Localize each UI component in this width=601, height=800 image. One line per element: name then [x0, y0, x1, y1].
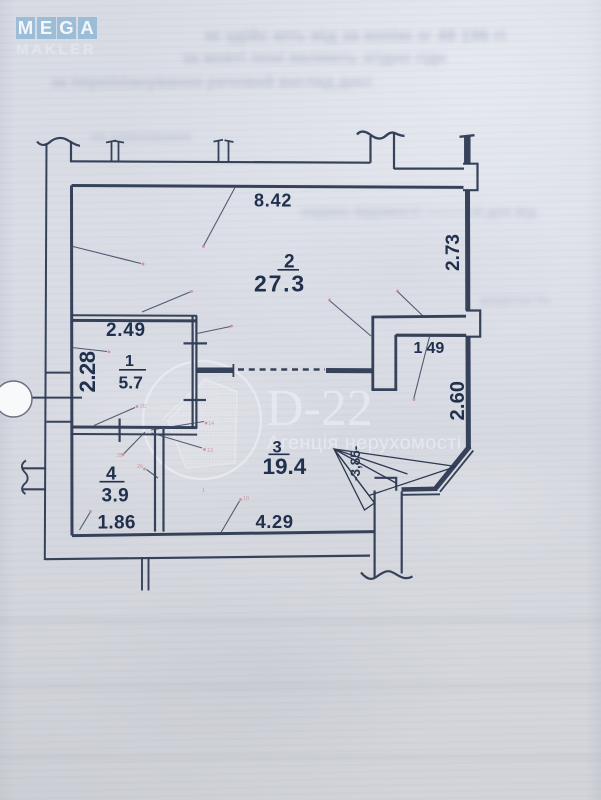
- wall: top outer (right span): [394, 168, 464, 170]
- leader to red dot 5 (to top wall right): [398, 292, 424, 317]
- stub end cap: [232, 364, 234, 377]
- underline of room 2: [278, 269, 300, 271]
- leader to red dot 8 (junction to hatch): [151, 422, 204, 431]
- pen arrow annotation fan: [334, 449, 456, 510]
- wall: left inner: [70, 186, 74, 536]
- leader through 1/49 label: [414, 337, 430, 399]
- leader to red dot 9 (junction down-right): [152, 433, 203, 448]
- wall jut with break squiggle (top middle-right): [369, 136, 371, 163]
- wall: top outer (left span): [70, 161, 371, 162]
- wall: partition room4/room3 (double): [154, 429, 156, 532]
- svg-text:2.28: 2.28: [75, 351, 100, 392]
- leader to red dot 14 (right of room1 wall): [197, 327, 231, 334]
- svg-text:8.42: 8.42: [254, 191, 292, 211]
- wall: chamfer corner (thick): [436, 447, 470, 489]
- svg-text:2.60: 2.60: [447, 381, 469, 421]
- door tick upper (room1 right wall): [184, 342, 208, 344]
- wall: bottom inner: [72, 532, 375, 536]
- leader to red dot 4 (to 1/49 corner): [330, 301, 372, 337]
- wall: room 1/49 outer left: [371, 317, 374, 390]
- wall: lower-right inner vertical: [374, 491, 376, 579]
- wall: bottom outer: [45, 556, 370, 560]
- wall: balcony bottom (thick): [402, 486, 438, 491]
- watermark house icon (hatched): [163, 379, 238, 468]
- window tick top (left wall): [46, 372, 70, 374]
- wall stub below bottom wall: [141, 557, 143, 591]
- wall: room1 bottom thick: [72, 426, 197, 430]
- wall: right wall top bar: [464, 137, 471, 165]
- wall: right wall (2.73 span): [465, 190, 470, 310]
- window tick bottom (left wall): [47, 421, 72, 423]
- pilaster tick A on top wall: [106, 141, 124, 162]
- watermark circle: [143, 361, 261, 479]
- wall stub right of opening (thick): [326, 368, 373, 373]
- pilaster 1 (right wall, upper): [463, 164, 478, 191]
- leader to red dot 6 (room 1): [94, 408, 135, 426]
- wall: chamfer outer thin line: [440, 451, 473, 492]
- leader to red dot 2 (room 2 left): [71, 246, 141, 264]
- tiny red index numbers: [117, 404, 249, 502]
- svg-text:4.29: 4.29: [256, 511, 294, 532]
- wall: room1 bottom thin: [72, 433, 197, 436]
- pilaster 2 (right wall, middle): [466, 311, 480, 337]
- left protrusion stub walls: [22, 467, 47, 469]
- svg-text:27.3: 27.3: [254, 271, 306, 297]
- svg-text:10: 10: [243, 496, 249, 502]
- leader to red dot 7 (room 4 upper): [124, 432, 145, 454]
- svg-text:Агенція нерухомості: Агенція нерухомості: [267, 432, 462, 454]
- leader to red dot 1 (room 2): [204, 188, 236, 247]
- wall stub left of opening (thick): [197, 368, 234, 374]
- bottom break squiggle: [361, 571, 413, 579]
- svg-text:5.7: 5.7: [119, 373, 143, 393]
- door tick lower (room1 right wall): [184, 399, 207, 401]
- svg-text:D-22: D-22: [266, 380, 373, 437]
- svg-text:2.49: 2.49: [106, 320, 146, 341]
- svg-text:1: 1: [414, 340, 423, 357]
- wall: left outer: [45, 143, 47, 560]
- wall: top inner (room 2 ceiling line): [72, 186, 464, 188]
- wall: room 1/49 bottom cap: [372, 388, 398, 391]
- svg-text:3.9: 3.9: [102, 486, 130, 507]
- MEGA MAKLER logo: [16, 17, 98, 58]
- leader to red dot 10 (room 4): [147, 470, 159, 479]
- svg-text:1: 1: [125, 353, 134, 370]
- pilaster 3 (lower right): [375, 478, 397, 491]
- underline of room 4: [100, 481, 125, 483]
- svg-text:1: 1: [202, 488, 205, 494]
- leader lines: [71, 188, 430, 533]
- pilaster tick B on top wall: [214, 140, 234, 162]
- underline of room 1: [119, 369, 146, 371]
- dashed opening line: [238, 368, 325, 371]
- leader to red dot 3 (room 2 lower): [142, 292, 190, 312]
- svg-text:2.73: 2.73: [443, 234, 464, 271]
- svg-text:25: 25: [117, 453, 123, 459]
- window mid line (left wall): [33, 397, 83, 399]
- svg-text:13: 13: [207, 448, 213, 454]
- svg-text:-3,85-: -3,85-: [348, 446, 363, 481]
- wall: right wall (2.60 span): [466, 337, 471, 448]
- bleed-through text rows (mirrored page backside, blurred): [205, 26, 506, 46]
- door tick (room1 bottom wall): [118, 419, 120, 443]
- wall break squiggle top-left: [37, 138, 80, 146]
- wall: room 1/49 inner left: [394, 335, 397, 390]
- leader to red dot 11 (room 4 bottom): [80, 513, 91, 531]
- hole punch disc: [0, 381, 32, 417]
- wall: room1 top (thick lower line): [72, 319, 197, 323]
- wall stub edge below squiggle: [70, 141, 72, 162]
- svg-text:19.4: 19.4: [263, 454, 307, 479]
- svg-text:20: 20: [140, 404, 146, 410]
- left protrusion break brace: [22, 461, 28, 495]
- wall: room 1/49 top outer: [372, 315, 467, 319]
- svg-text:26: 26: [137, 464, 143, 470]
- wall: room 1/49 top inner: [396, 334, 466, 337]
- svg-text:49: 49: [427, 340, 445, 357]
- svg-text:14: 14: [208, 421, 214, 427]
- wall: room1 top (thin upper line): [72, 314, 197, 317]
- red measurement dots: [89, 245, 415, 513]
- wall: balcony bottom outer thin: [402, 493, 440, 496]
- cap at top of right wall: [460, 135, 475, 137]
- svg-text:4: 4: [106, 463, 117, 484]
- leader to red dot 12 (room 3 bottom): [221, 501, 240, 533]
- svg-text:1.86: 1.86: [98, 513, 136, 534]
- wall: lower-right outer vertical: [401, 492, 403, 574]
- underline of room 3: [269, 453, 290, 455]
- wall: room1 right (double line): [192, 316, 194, 429]
- leader to red dot 15 (room1 left wall): [72, 348, 107, 352]
